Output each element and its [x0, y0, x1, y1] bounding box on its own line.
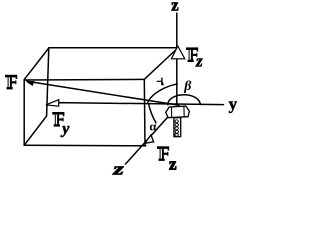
svg-text:z: z	[112, 160, 125, 177]
Fx open arrowhead	[145, 135, 154, 143]
svg-text:β: β	[183, 79, 192, 94]
bolt head hexagon at origin	[166, 106, 190, 118]
box edge front-bottom	[24, 144, 146, 147]
box edge top-back	[49, 47, 178, 49]
svg-text:y: y	[229, 95, 238, 114]
Fy open arrowhead	[46, 100, 59, 107]
y-axis line (doubles as Fy component line)	[47, 103, 224, 106]
box edge front-top	[24, 78, 144, 81]
bolt thread coils	[175, 120, 179, 137]
svg-text:z: z	[169, 154, 177, 173]
alpha angle arc (F to x-axis)	[149, 104, 156, 123]
Fz component label	[186, 47, 203, 70]
gamma angle arc (z-axis to F)	[148, 84, 178, 103]
svg-text:y: y	[60, 120, 70, 137]
x-axis line (doubles as Fx component line)	[126, 109, 176, 165]
force F vector line	[27, 81, 179, 105]
force F label	[5, 75, 17, 90]
bolt head facet lines	[171, 106, 184, 117]
box edge front-right vertical	[143, 79, 146, 145]
svg-text:z: z	[171, 0, 178, 15]
F vector filled arrowhead	[26, 81, 34, 86]
box edge top-right slant	[144, 48, 178, 79]
box edge top-left slant	[24, 48, 49, 80]
svg-text:z: z	[195, 52, 203, 71]
box edge back-left vertical	[47, 48, 49, 116]
Fz open arrowhead	[171, 46, 184, 59]
box edge front-left vertical	[23, 80, 25, 146]
Fy component label	[52, 112, 70, 137]
svg-text:α: α	[149, 119, 156, 133]
Fx component label	[157, 146, 177, 173]
gamma label tick mark	[157, 78, 163, 86]
box edge bottom-left slant	[24, 116, 46, 145]
z-axis line	[176, 13, 178, 105]
beta angle arc (y-axis semicircle)	[168, 95, 200, 105]
bolt threaded shank	[174, 118, 181, 137]
